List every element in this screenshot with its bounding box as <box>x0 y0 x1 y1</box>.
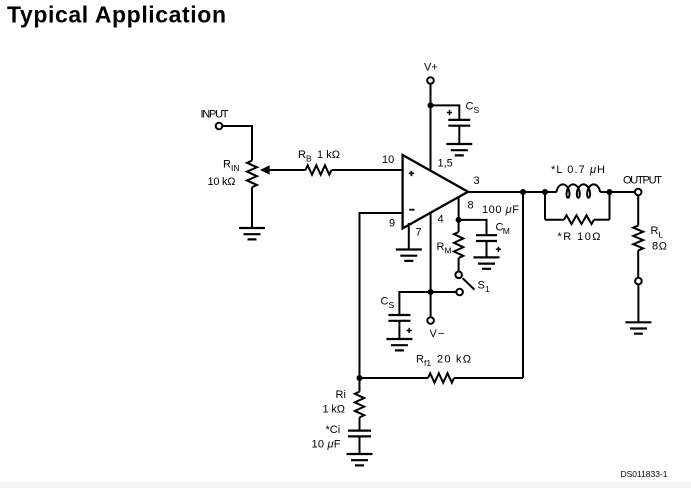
wire node to RM <box>458 220 460 232</box>
label RL <box>651 225 664 240</box>
junction node L/R right <box>607 189 613 195</box>
input terminal <box>216 123 223 130</box>
wire CS (V- bypass) to ground <box>398 321 400 339</box>
label 100 uF (CM) <box>482 204 519 216</box>
wire Rf1 to inverting node <box>360 377 429 379</box>
ground (Ci) <box>347 454 373 465</box>
label 8 ohm (RL) <box>652 241 667 253</box>
capacitor CS (V+ bypass) <box>447 110 470 126</box>
label 10 uF (Ci) <box>312 439 341 451</box>
wire Ri to Ci <box>359 417 361 430</box>
wire V+ node to CS <box>431 105 460 120</box>
svg-text:V+: V+ <box>424 62 438 74</box>
V- terminal <box>427 317 434 324</box>
wire CS to ground <box>458 126 460 144</box>
svg-text:R: R <box>223 159 231 171</box>
V+ terminal <box>427 77 434 84</box>
pin 3 label <box>474 175 480 187</box>
OUTPUT terminal <box>635 189 642 196</box>
svg-text:B: B <box>306 154 312 164</box>
junction node pin4 / V- <box>428 289 434 295</box>
node INPUT label <box>201 109 229 121</box>
svg-text:OUTPUT: OUTPUT <box>623 175 662 187</box>
junction node L/R left <box>542 189 548 195</box>
svg-text:C: C <box>466 101 474 113</box>
label OUTPUT <box>623 175 662 187</box>
wire V- node to V- terminal <box>430 292 432 317</box>
svg-text:10 μF: 10 μF <box>312 439 341 451</box>
junction node feedback tap <box>520 189 526 195</box>
wire RM to switch S1 <box>458 258 460 271</box>
capacitor CS (V- bypass) <box>388 315 411 333</box>
net V- label <box>430 328 445 340</box>
svg-text:DS011833-1: DS011833-1 <box>621 469 668 479</box>
svg-text:8: 8 <box>468 200 474 212</box>
svg-text:3: 3 <box>474 175 480 187</box>
switch S1 <box>455 272 474 296</box>
pin 8 label <box>468 200 474 212</box>
wire node pin 8 to CM <box>459 220 487 235</box>
wire CM to ground <box>486 241 488 257</box>
label Ri <box>336 389 346 401</box>
inductor *L 0.7 uH <box>556 184 635 197</box>
junction node pin 8 <box>456 217 462 223</box>
svg-text:C: C <box>381 296 389 308</box>
junction node V+ / CS <box>428 102 434 108</box>
resistor *R 10 ohm (parallel damping) <box>545 192 610 224</box>
svg-text:INPUT: INPUT <box>201 109 229 121</box>
junction node Ri / Rf1 / pin 9 <box>357 375 363 381</box>
resistor RL 8 ohm <box>633 226 643 251</box>
label R_IN <box>223 159 240 174</box>
ground (CS V-) <box>386 339 412 350</box>
wire op-amp output pin 3 to OUTPUT <box>468 191 557 193</box>
svg-text:S: S <box>478 280 485 292</box>
svg-text:9: 9 <box>389 218 395 230</box>
wire pin 4 to V- node <box>430 212 432 293</box>
ground (R_IN) <box>239 228 265 239</box>
label CM <box>496 222 510 237</box>
R_IN wiper arrow <box>260 165 270 175</box>
wire pin 7 to ground <box>408 223 410 250</box>
resistor Ri 1 k <box>355 392 364 418</box>
svg-text:M: M <box>445 246 452 256</box>
wire RL to lower terminal <box>637 250 639 277</box>
svg-text:20 kΩ: 20 kΩ <box>437 354 471 366</box>
svg-text:S: S <box>474 105 480 115</box>
label *R 10 ohm <box>558 231 601 243</box>
resistor RM <box>454 232 463 258</box>
label 10 k ohm (R_IN) <box>208 176 236 188</box>
capacitor *Ci 10 uF <box>348 431 371 437</box>
wire R_B to op-amp pin 10 <box>332 169 403 171</box>
ground (CS V+) <box>446 144 472 155</box>
svg-text:100 μF: 100 μF <box>482 204 519 216</box>
lower output terminal <box>635 278 642 285</box>
svg-text:IN: IN <box>231 163 240 173</box>
svg-text:R: R <box>298 149 306 161</box>
net V+ label <box>424 62 438 74</box>
label Rf1 20 k ohm <box>416 354 471 369</box>
label CS (V- bypass) <box>381 296 395 311</box>
pin 1,5 label <box>438 158 453 170</box>
wire pin 9 to node <box>360 213 403 378</box>
svg-text:1,5: 1,5 <box>438 158 453 170</box>
wire input terminal to R_IN top <box>222 126 252 161</box>
wire Rf1 right segment <box>454 377 523 379</box>
svg-text:f1: f1 <box>424 358 431 368</box>
capacitor CM 100 uF <box>476 235 501 252</box>
svg-text:*Ci: *Ci <box>326 424 341 436</box>
resistor R_B 1 k <box>306 165 332 174</box>
pin 10 label <box>382 154 394 166</box>
potentiometer R_IN 10 k <box>247 161 257 188</box>
pin 9 label <box>389 218 395 230</box>
svg-text:L: L <box>659 230 664 240</box>
label *Ci <box>326 424 341 436</box>
label *L 0.7 uH <box>551 164 605 176</box>
wire node to Ri <box>359 378 361 392</box>
svg-text:Typical Application: Typical Application <box>7 1 226 27</box>
wire V+ to op-amp supply pins 1,5 <box>430 84 432 172</box>
svg-text:1 kΩ: 1 kΩ <box>317 149 340 161</box>
wire V- node to CS (V- bypass) <box>399 292 430 315</box>
label CS (V+ bypass) <box>466 101 480 116</box>
pin 7 label <box>416 227 422 239</box>
ground (pin 7) <box>396 250 422 261</box>
ground (RL) <box>625 322 651 333</box>
svg-text:10 kΩ: 10 kΩ <box>208 176 236 188</box>
label DS011833-1 <box>621 469 668 479</box>
svg-text:*R 10Ω: *R 10Ω <box>558 231 601 243</box>
wire OUTPUT to RL <box>637 195 639 225</box>
label RM <box>437 241 452 256</box>
wire V- node to switch S1 <box>431 291 457 293</box>
svg-text:R: R <box>437 241 445 253</box>
svg-text:1 kΩ: 1 kΩ <box>323 404 346 416</box>
label 1 k ohm (Ri) <box>323 404 346 416</box>
resistor Rf1 20 k <box>428 373 454 382</box>
svg-text:10: 10 <box>382 154 394 166</box>
wire lower terminal to ground <box>637 285 639 323</box>
wire wiper to R_B <box>268 169 306 171</box>
svg-text:*L 0.7 μH: *L 0.7 μH <box>551 164 605 176</box>
svg-text:V−: V− <box>430 328 445 340</box>
pin 4 label <box>438 214 444 226</box>
svg-text:R: R <box>651 225 659 237</box>
wire Ci to ground <box>359 436 361 454</box>
svg-text:1: 1 <box>485 284 490 294</box>
wire feedback vertical (output to Rf1) <box>522 192 524 378</box>
svg-text:7: 7 <box>416 227 422 239</box>
svg-text:M: M <box>503 226 510 236</box>
op-amp U1 <box>403 155 468 228</box>
label S1 <box>478 280 491 295</box>
svg-text:S: S <box>389 300 395 310</box>
svg-text:R: R <box>416 354 424 366</box>
svg-text:Ri: Ri <box>336 389 346 401</box>
wire pin 8 to node <box>458 196 460 220</box>
ground (CM) <box>474 257 500 268</box>
svg-text:8Ω: 8Ω <box>652 241 667 253</box>
label R_B 1 k ohm <box>298 149 340 164</box>
wire R_IN to ground <box>251 187 253 228</box>
svg-text:4: 4 <box>438 214 444 226</box>
